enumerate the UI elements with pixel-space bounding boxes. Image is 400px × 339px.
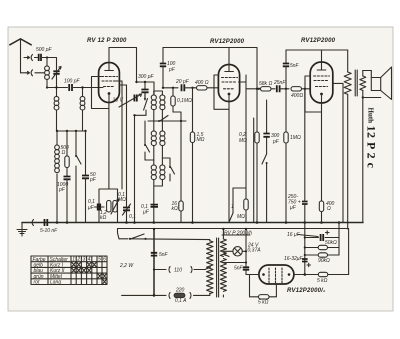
coil L2 (54, 86, 59, 131)
svg-text:μF: μF (289, 205, 297, 211)
resistor 58k (259, 81, 275, 91)
svg-text:500 pF: 500 pF (36, 47, 53, 53)
junction dots ground bus (56, 221, 341, 224)
svg-text:400 Ω: 400 Ω (195, 80, 209, 86)
wire secondary down (362, 98, 364, 223)
mains lead vertical (153, 229, 155, 295)
switch S4 (162, 158, 174, 181)
svg-text:5nF: 5nF (290, 63, 300, 69)
capacitor 16-32uF (284, 256, 311, 267)
vertical from switch node (134, 115, 136, 222)
wire tube3 plate top (321, 50, 323, 62)
power transformer T1 left winding (207, 241, 213, 296)
heater tap wire (223, 262, 246, 264)
capacitor 5000pF (82, 131, 97, 223)
svg-text:μF: μF (142, 210, 150, 216)
wire tube1 cathode bottom (92, 77, 109, 190)
bandswitch coil row1 right (154, 91, 165, 110)
wire tube1 side pins (116, 81, 127, 85)
switch S5 (262, 154, 268, 223)
transformer T1 core (217, 238, 219, 297)
coil L3 (80, 86, 85, 131)
wire to trimmer branch (47, 58, 57, 71)
svg-text:5 kΩ: 5 kΩ (258, 300, 269, 306)
svg-text:220: 220 (175, 288, 185, 294)
bandswitch coil row3 right (160, 145, 165, 179)
resistor R2 (65, 131, 69, 176)
row 16uF (287, 231, 339, 241)
output transformer T2 secondary (360, 71, 366, 98)
tube V4 electrodes (262, 268, 290, 284)
capacitor 0,1uF (87, 199, 104, 211)
capacitor 25nF (273, 80, 289, 92)
left filter: junction bus y131 (56, 130, 87, 132)
svg-text:25nF: 25nF (273, 80, 286, 86)
tube V1 electrodes (102, 63, 118, 102)
resistor 5k bottom (250, 275, 277, 306)
svg-text:0,37A: 0,37A (248, 248, 262, 254)
svg-text:MΩ: MΩ (118, 197, 126, 203)
wire IF top node (137, 82, 155, 95)
svg-text:1: 1 (72, 257, 75, 263)
svg-text:MΩ: MΩ (239, 138, 247, 144)
svg-text:Ω: Ω (62, 150, 66, 156)
grid box tube3 (305, 76, 322, 112)
svg-text:μF: μF (87, 205, 95, 211)
resistor 1,5M (190, 88, 204, 223)
tube V3 electrodes (314, 63, 330, 103)
bandswitch coil row1 left (153, 91, 155, 95)
svg-text:RV12P2000: RV12P2000 (301, 38, 336, 44)
wire tube2 aux verticals (253, 118, 255, 223)
rectifier heater wiring verticals (304, 223, 306, 275)
svg-text:1MΩ: 1MΩ (290, 135, 301, 141)
tube V3 envelope (310, 62, 333, 103)
capacitor 100pF (64, 79, 81, 92)
loudspeaker LS (362, 67, 392, 100)
wire rect right lead (294, 274, 318, 276)
svg-text:kΩ: kΩ (172, 206, 179, 212)
vertical right column (338, 223, 340, 256)
resistor 400 Ohm grid3 (291, 87, 310, 99)
power transformer T1 right windings (220, 229, 226, 297)
resistor 16k (172, 121, 184, 223)
coil L1 (45, 56, 50, 88)
switch row y121 (148, 112, 186, 122)
svg-text:100 pF: 100 pF (64, 79, 81, 85)
tube V2 electrodes (214, 65, 246, 101)
svg-text:pF: pF (272, 139, 280, 145)
svg-text:RV12P2000: RV12P2000 (210, 39, 245, 45)
svg-text:MΩ: MΩ (237, 214, 245, 220)
antenna (10, 39, 31, 73)
resistor 0,2M on B+ (239, 132, 259, 223)
svg-text:300 pF: 300 pF (138, 74, 155, 80)
heater label RVP2000h (222, 230, 252, 236)
row 50k (304, 240, 339, 250)
svg-text:0,1MΩ: 0,1MΩ (177, 98, 192, 104)
svg-text:1: 1 (231, 204, 234, 210)
wire antenna to jack (21, 72, 27, 74)
mains switch S6 (118, 229, 210, 241)
ground bus (22, 222, 363, 224)
jack J2 (26, 70, 33, 76)
trimmer C2 (35, 67, 61, 88)
top bus stage2 (163, 48, 257, 133)
svg-text:5 kΩ: 5 kΩ (317, 278, 328, 284)
row 90k (304, 253, 339, 264)
capacitor 100pF coupling (160, 48, 176, 88)
capacitor 250-750uF (287, 88, 308, 223)
wire grid line stage2 (163, 87, 178, 89)
svg-text:Ω: Ω (327, 206, 331, 212)
svg-text:RV12P2000/₁: RV12P2000/₁ (287, 288, 325, 294)
pilot lamp (223, 243, 261, 257)
svg-text:58k Ω: 58k Ω (259, 81, 272, 87)
screen box tube2 (214, 75, 246, 188)
tube V2 envelope (218, 65, 239, 102)
tube V1 envelope (99, 63, 120, 103)
trimmer cap 0,1 (123, 204, 137, 220)
resistor 5k right (317, 229, 349, 284)
resistor 1M (284, 132, 301, 223)
jack ground (22, 220, 34, 226)
capacitor 500pF (35, 47, 53, 61)
svg-text:110: 110 (174, 268, 182, 274)
svg-text:5nF: 5nF (159, 252, 169, 258)
capacitor 300pF mid (263, 100, 279, 154)
table Farbe/Schalter (31, 256, 107, 286)
svg-text:6: 6 (103, 257, 106, 263)
svg-text:5: 5 (98, 257, 101, 263)
wire tube2 plate top (228, 48, 230, 65)
svg-text:0,1 A: 0,1 A (175, 298, 187, 304)
box 1M grid leak (230, 188, 249, 223)
svg-text:0,1: 0,1 (129, 214, 136, 220)
wire tube3 plate right (333, 83, 343, 222)
transformer T2 core (355, 70, 357, 96)
capacitor 5-10nF (40, 219, 58, 234)
resistor 400 Ohm grid2 (194, 80, 219, 90)
resistor 400 Ohm cathode3 (319, 201, 334, 223)
svg-text:2: 2 (76, 257, 80, 263)
wire tube1 plate to top (109, 48, 137, 83)
rectifier tube V4 envelope (259, 265, 294, 284)
bandswitch coil row2 right (160, 109, 165, 145)
svg-text:5-10 nF: 5-10 nF (40, 228, 58, 234)
svg-text:5nF: 5nF (234, 266, 244, 272)
potentiometer (111, 192, 126, 214)
capacitor 5nF mains (151, 252, 169, 258)
svg-text:4: 4 (88, 257, 91, 263)
second bus (118, 228, 349, 230)
wire plate2 node (246, 88, 259, 90)
svg-text:90kΩ: 90kΩ (318, 258, 330, 264)
svg-text:Huth: Huth (367, 108, 375, 124)
wire signal y87.5 (47, 87, 88, 89)
svg-text:rot: rot (34, 280, 40, 286)
switch S1 (75, 131, 81, 223)
ground symbol (17, 223, 27, 237)
wire rect left lead (246, 274, 259, 276)
resistor 0,1M (171, 88, 192, 112)
svg-text:pF: pF (89, 177, 97, 183)
svg-text:20 pF: 20 pF (175, 79, 190, 85)
jack J1 (24, 55, 33, 61)
capacitor 5nF (283, 50, 300, 132)
long verticals left bundle (122, 81, 127, 223)
svg-text:kΩ: kΩ (100, 215, 107, 221)
fuse 220 0,1A (122, 288, 210, 305)
voltage selector 110 (153, 267, 211, 274)
capacitor 1000pF (57, 177, 71, 223)
svg-text:400Ω: 400Ω (291, 93, 303, 99)
wire tube V4 cathode down (275, 284, 277, 297)
capacitor 300pF (138, 74, 155, 100)
switch S2 (133, 93, 147, 117)
svg-text:50kΩ: 50kΩ (325, 240, 337, 246)
bandswitch coil row2 left (151, 109, 156, 145)
svg-text:Lang: Lang (50, 280, 61, 286)
top bus stage3 (286, 49, 348, 51)
capacitor 20pF (175, 79, 194, 91)
switch S3 (144, 121, 154, 160)
svg-text:RV 12 P 2000: RV 12 P 2000 (87, 38, 127, 44)
resistor 1,2kOhm (100, 201, 111, 222)
svg-text:2,2 W: 2,2 W (119, 263, 134, 269)
svg-text:12 P 2 c: 12 P 2 c (365, 126, 379, 169)
bandswitch coil row3 left (151, 145, 156, 179)
wire tube3 cathode down (321, 103, 323, 201)
svg-text:pF: pF (168, 67, 176, 73)
shield box cathode network (99, 189, 118, 223)
output transformer T2 primary (344, 50, 351, 229)
svg-text:3: 3 (83, 257, 86, 263)
capacitor 5nF rect (153, 228, 249, 275)
svg-text:pF: pF (58, 187, 66, 193)
wire grid tube1 (88, 87, 103, 89)
capacitor 0,1uF IF (141, 204, 158, 216)
svg-text:16-32μF: 16-32μF (284, 256, 304, 262)
svg-text:MΩ: MΩ (197, 137, 205, 143)
choke 500 Ohm (55, 131, 69, 223)
wire tube2 cathode down (228, 101, 230, 222)
trimmer 36V note (113, 94, 142, 107)
coil bottoms to bus (154, 179, 163, 222)
